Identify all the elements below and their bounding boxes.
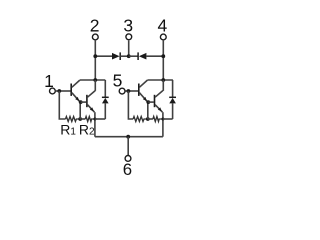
svg-text:3: 3 — [123, 16, 133, 36]
node pin2 bus junction — [93, 54, 97, 58]
wire Q2 base — [81, 101, 87, 103]
wire pin3 node to D2 — [129, 55, 138, 57]
node R1-R2 junction — [78, 117, 82, 121]
wire D2 to pin4 — [146, 55, 163, 57]
diode D3 freewheel — [102, 80, 109, 119]
wire junction vertical (Q2 base to R bus) — [79, 102, 81, 119]
node Q1 emitter / Q2 base — [79, 100, 83, 104]
wire Q4 base — [148, 101, 154, 103]
wire pin4 column — [162, 41, 164, 80]
wire R bus between R1 and R2 — [80, 118, 85, 120]
wire pin1 to Q1 base — [56, 90, 71, 92]
transistor Q4 — [155, 91, 163, 113]
node collector wire junction right — [161, 78, 165, 82]
pin 4 terminal circle — [160, 34, 166, 40]
node R3-R4 junction — [146, 117, 150, 121]
pin 2 terminal circle — [92, 34, 98, 40]
diode D2 — [138, 52, 146, 60]
wire Q4 emitter down — [162, 112, 164, 137]
resistor R1 — [66, 117, 79, 122]
wire pin5 node down to R3 — [128, 91, 133, 119]
resistor R2 — [85, 117, 95, 122]
wire pin3 column — [128, 40, 130, 56]
transistor Q2 — [87, 91, 95, 113]
pin 5 terminal circle — [119, 88, 125, 94]
node emitter R bus junction right — [161, 118, 164, 121]
wire junction vertical right cell — [147, 102, 149, 119]
wire pin2 column — [94, 41, 96, 80]
wire D1 to pin3 node — [120, 55, 129, 57]
wire Q2 emitter down — [94, 112, 96, 137]
resistor R4 — [153, 117, 163, 122]
wire Q4 collector column stub — [162, 80, 164, 91]
diode D4 freewheel — [169, 80, 176, 119]
svg-text:6: 6 — [123, 160, 132, 179]
svg-text:4: 4 — [158, 16, 168, 36]
svg-text:5: 5 — [113, 71, 123, 91]
node pin4 bus junction — [161, 54, 165, 58]
node pin5 tee — [126, 89, 130, 93]
diode D1 — [112, 52, 120, 60]
wire R bus to diode D4 — [163, 118, 173, 120]
wire pin5 to Q3 base — [126, 90, 139, 92]
resistor R3 — [133, 117, 146, 122]
node pin1 tee — [57, 89, 61, 93]
wire R bus to diode D3 — [95, 118, 105, 120]
svg-text:2: 2 — [90, 16, 100, 36]
node Q3 emitter / Q4 base — [146, 100, 150, 104]
node pin6 junction — [126, 135, 130, 139]
wire R bus between R3 and R4 — [148, 118, 153, 120]
transistor Q1 — [71, 80, 80, 102]
wire top bus left (pin2 to D1) — [95, 55, 112, 57]
wire bottom emitter bus — [95, 136, 163, 138]
pin 6 terminal circle — [125, 156, 131, 162]
pin 1 terminal circle — [50, 88, 56, 94]
pin 3 terminal circle — [126, 34, 132, 40]
transistor Q3 — [139, 80, 148, 102]
wire Q1 collector to pin2 column — [80, 79, 106, 81]
node pin3 junction — [127, 54, 131, 58]
wire Q3 collector to pin4 column — [147, 79, 173, 81]
node collector wire junction — [93, 78, 97, 82]
wire pin1 node down to R1 — [59, 91, 65, 119]
wire Q2 collector column stub — [94, 80, 96, 91]
wire pin6 drop — [127, 137, 129, 155]
node emitter R bus junction — [93, 118, 96, 121]
